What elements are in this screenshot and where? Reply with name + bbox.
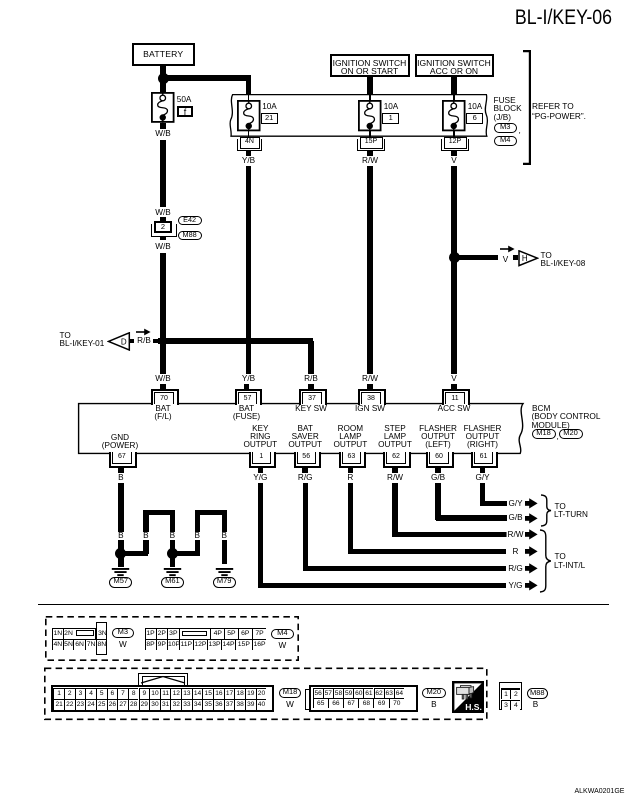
- wire battery positive: [160, 66, 165, 93]
- connector view M18 grid: [138, 673, 188, 686]
- fuse block label line2: [494, 104, 522, 112]
- color label B M20: [430, 701, 438, 709]
- fuse block label line1: [494, 96, 516, 104]
- color label W M4: [277, 642, 288, 650]
- pin name KEY RING OUTPUT: [215, 425, 305, 450]
- title BL-I/KEY-06: [486, 7, 612, 29]
- arrow R output: [525, 546, 538, 557]
- wire label B link2: [168, 532, 176, 540]
- wire label R/G out: [507, 565, 525, 573]
- wire label V 2: [450, 375, 458, 383]
- ground symbol M79: [215, 568, 234, 577]
- wire G/B horizontal to arrow: [436, 515, 507, 520]
- terminal 1 KEY RING OUTPUT: [249, 452, 276, 468]
- H.S. hand-side logo: [452, 681, 484, 713]
- wire label R out: [511, 548, 520, 556]
- wire ignition acc to fuse 6: [451, 77, 456, 95]
- wire label R/W out 1: [386, 474, 405, 482]
- terminal 70 BAT F/L: [160, 384, 166, 390]
- brace LT-TURN: [540, 494, 553, 527]
- connector ref E42: [178, 216, 202, 225]
- connector view M3 grid: [52, 628, 96, 651]
- ignition switch ON-START box: [330, 54, 410, 77]
- wire ground link 2 riser: [195, 510, 200, 554]
- terminal 67 GND POWER: [109, 452, 136, 468]
- note TO LT-INT/L 2: [554, 562, 585, 570]
- BCM label line2: [532, 412, 601, 420]
- wire W/B upper run: [160, 140, 165, 207]
- direction arrow V branch: [500, 245, 515, 253]
- wire R/B down to KEY SW: [308, 341, 313, 374]
- connector ref M20 bcm: [559, 429, 583, 439]
- terminal 62 STEP LAMP OUTPUT: [383, 452, 410, 468]
- connector ref M18 grid: [279, 688, 301, 698]
- terminal 63 ROOM LAMP OUTPUT: [339, 452, 366, 468]
- note BL-I/KEY-08: [541, 260, 586, 268]
- fuse designator box 1: [382, 113, 399, 124]
- pin name ACC SW: [436, 405, 472, 413]
- wire label R/W out: [506, 531, 525, 539]
- BCM body control module box: [77, 402, 529, 456]
- wire W/B lower run: [160, 253, 165, 375]
- pin name BAT SAVER OUTPUT: [260, 425, 350, 450]
- wire R/W vertical drop: [392, 483, 397, 538]
- fusible link f 50A: [148, 89, 178, 126]
- pin name FLASHER OUTPUT LEFT: [393, 425, 483, 450]
- wire label B link3: [193, 532, 201, 540]
- connector ref M18 bcm: [532, 429, 556, 439]
- connector ref M88 inline: [178, 231, 202, 240]
- color label W M18: [285, 701, 296, 709]
- wire label G/Y out: [507, 500, 524, 508]
- pin name FLASHER OUTPUT RIGHT: [438, 425, 528, 450]
- wire feed down into fuse block: [246, 78, 251, 95]
- terminal 60 FLASHER LEFT: [426, 452, 453, 468]
- fuse designator box 6: [466, 113, 483, 124]
- wire label Y/G 1: [252, 474, 269, 482]
- ground symbol M57: [111, 568, 130, 577]
- wire label R/W top: [361, 157, 380, 165]
- connector 12P: [444, 137, 467, 149]
- wire ground link 1 horizontal: [121, 551, 149, 556]
- wire B from terminal 67: [118, 483, 123, 554]
- wire label W/B 4: [154, 375, 172, 383]
- pin name BAT (F/L) 2: [153, 413, 173, 421]
- pin name IGN SW: [353, 405, 386, 413]
- wire R/B horizontal: [158, 338, 314, 343]
- refer note line2: [532, 112, 586, 120]
- pin name ROOM LAMP OUTPUT: [305, 425, 395, 450]
- wire V branch horizontal: [456, 255, 498, 260]
- wire label B gnd: [117, 474, 125, 482]
- pin name KEY SW: [294, 405, 329, 413]
- wire label R 1: [346, 474, 355, 482]
- arrow G/Y output: [525, 498, 538, 509]
- arrow Y/G output: [525, 580, 538, 591]
- wire label R/W 2: [361, 375, 380, 383]
- wire label R/G 1: [296, 474, 314, 482]
- wire G/Y horizontal to arrow: [480, 501, 507, 506]
- wire ground stub M61: [170, 556, 176, 567]
- color label B M88: [531, 701, 539, 709]
- refer bracket: [520, 50, 532, 165]
- fuse block label line3: [494, 113, 512, 121]
- wire label Y/B top: [240, 157, 256, 165]
- ignition switch ACC-ON box: [415, 54, 494, 77]
- pin name BAT (F/L): [154, 405, 172, 413]
- wire Y/B run: [246, 166, 251, 374]
- wire ground bus bar 1: [143, 510, 175, 515]
- wire Y/G vertical drop: [258, 483, 263, 589]
- junction node battery feed: [158, 73, 169, 84]
- fuse designator box 21: [261, 113, 278, 124]
- wire R vertical drop: [348, 483, 353, 554]
- wire V run: [451, 166, 456, 374]
- svg-text:D: D: [120, 337, 126, 346]
- ground symbol M61: [163, 568, 182, 577]
- note TO LT-TURN 1: [555, 503, 566, 511]
- value label 10A fuse 21: [262, 103, 277, 111]
- connector view M4 grid: [145, 628, 267, 650]
- wire label W/B 2: [154, 209, 172, 217]
- wire label V branch: [501, 256, 509, 264]
- connector ref M4: [494, 136, 518, 146]
- wire label B m57: [117, 532, 125, 540]
- fuse 1 10A: [355, 97, 385, 134]
- connector ref M3: [494, 123, 518, 133]
- wire fuse 1 bottom lead: [369, 130, 370, 138]
- fuse 21 10A: [234, 97, 264, 134]
- wire R horizontal to arrow: [348, 549, 507, 554]
- arrow R/W output: [525, 529, 538, 540]
- figure code ALKWA0201GE: [575, 788, 625, 795]
- wire stub square before H triangle: [513, 255, 518, 260]
- note TO: [60, 332, 71, 340]
- wire fusible link bottom stub: [160, 123, 166, 129]
- connector ref M4 grid: [271, 629, 294, 640]
- wire ground link 2 drop: [222, 510, 227, 564]
- ground ref M79: [213, 577, 236, 587]
- terminal 37 KEY SW: [308, 384, 314, 390]
- triangle connector H to BL-I/KEY-08: [518, 250, 539, 267]
- fuse 6 10A: [439, 97, 469, 134]
- wire Y/G horizontal to arrow: [258, 583, 507, 588]
- brace LT-INT/L: [539, 529, 553, 593]
- wire R/W run: [367, 166, 372, 374]
- wire ground link 1 drop: [170, 510, 175, 554]
- wire label G/Y 1: [474, 474, 491, 482]
- wire label R/B 2: [303, 375, 320, 383]
- dashed detail box upper: [44, 615, 300, 662]
- ground ref M57: [109, 577, 132, 587]
- junction node ground M61: [167, 548, 178, 559]
- svg-text:H: H: [522, 254, 528, 263]
- separator rule: [38, 604, 609, 606]
- wire R/W horizontal to arrow: [393, 532, 507, 537]
- note TO LT-INT/L 1: [555, 553, 566, 561]
- wire battery feed to fuse block: [163, 75, 251, 80]
- wire label W/B 1: [154, 130, 172, 138]
- pin name GND: [109, 434, 130, 442]
- wire R/G horizontal to arrow: [303, 566, 507, 571]
- wire fuse 6 bottom lead: [453, 130, 454, 138]
- wire fuse 21 top lead: [248, 95, 249, 101]
- wire label G/B out: [507, 514, 524, 522]
- wire ground bus bar 2: [195, 510, 227, 515]
- connector 4N: [240, 137, 260, 149]
- wire label V top: [450, 157, 458, 165]
- wire stub square right of R/B: [153, 339, 158, 344]
- connector ref M3 grid: [112, 628, 135, 639]
- wire label Y/B 2: [240, 375, 256, 383]
- pin name BAT (FUSE): [237, 405, 255, 413]
- wire fuse 1 top lead: [369, 95, 370, 101]
- dashed detail box lower: [43, 666, 489, 721]
- wire ignition on-start to fuse 1: [367, 77, 372, 95]
- wire stub square left of R/B: [129, 339, 134, 344]
- inline connector 2: [160, 217, 166, 222]
- comma after M3: [519, 126, 521, 134]
- color label W M3: [118, 641, 129, 649]
- fusible link designator box f: [177, 106, 194, 118]
- direction arrow R/B branch: [136, 328, 151, 336]
- pin name GND 2: [100, 442, 139, 450]
- note TO 08: [541, 252, 552, 260]
- battery B1: [132, 43, 196, 66]
- wire label G/B 1: [429, 474, 446, 482]
- junction node V branch: [449, 252, 460, 263]
- wire ground stub M57: [118, 556, 124, 567]
- wire label B link1: [142, 532, 150, 540]
- pin name BAT (FUSE) 2: [231, 413, 261, 421]
- terminal 56 BAT SAVER OUTPUT: [294, 452, 321, 468]
- terminal 61 FLASHER RIGHT: [471, 452, 498, 468]
- value label 10A fuse 6: [468, 103, 483, 111]
- note TO LT-TURN 2: [554, 511, 588, 519]
- connector ref M88 grid: [527, 688, 549, 700]
- wire G/B vertical drop: [435, 483, 440, 521]
- terminal 38 IGN SW: [367, 384, 373, 390]
- arrow R/G output: [525, 563, 538, 574]
- connector 15P: [360, 137, 383, 149]
- svg-text:H.S.: H.S.: [465, 702, 482, 712]
- wire ground link 1 riser: [143, 510, 148, 554]
- junction node ground M57: [115, 548, 126, 559]
- pin name STEP LAMP OUTPUT: [350, 425, 440, 450]
- terminal 11 ACC SW: [451, 384, 457, 390]
- BCM label line3: [532, 421, 570, 429]
- triangle connector D to BL-I/KEY-01: [107, 332, 131, 351]
- terminal 57 BAT FUSE: [244, 384, 250, 390]
- fuse block J/B strip: [225, 92, 493, 139]
- wire label B link4: [220, 532, 228, 540]
- wire label Y/G out: [507, 582, 524, 590]
- wire fuse 6 top lead: [453, 95, 454, 101]
- connector ref M20 grid: [422, 688, 446, 699]
- ground ref M61: [161, 577, 184, 587]
- wire label W/B 3: [154, 243, 172, 251]
- comma after M18: [557, 432, 559, 440]
- wire fuse 21 bottom lead: [248, 130, 249, 138]
- wire ground link 2 horizontal: [172, 551, 199, 556]
- BCM label line1: [532, 404, 550, 412]
- connector view M88 grid: [499, 682, 522, 710]
- refer note line1: [532, 102, 574, 110]
- arrow G/B output: [525, 513, 538, 524]
- wire R/G vertical drop: [303, 483, 308, 571]
- connector view M20 grid: [305, 689, 310, 710]
- value label 10A fuse 1: [384, 103, 399, 111]
- value label 50A: [177, 96, 192, 104]
- wire G/Y vertical drop: [480, 483, 485, 507]
- wire label R/B branch: [136, 337, 153, 345]
- note BL-I/KEY-01: [60, 340, 105, 348]
